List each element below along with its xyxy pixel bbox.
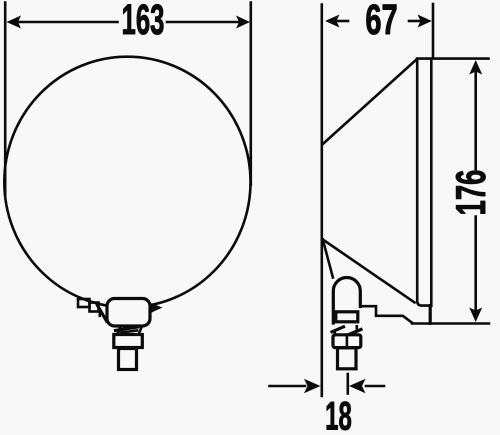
front collar lower diagonal (121, 331, 137, 333)
front bracket left diagonal strut (98, 306, 107, 322)
front nut rectangle (114, 335, 143, 348)
dimension 67 right arrowhead (418, 15, 432, 28)
dimension 176 line upper segment (474, 72, 477, 169)
side collar lower-right diagonal mark (350, 330, 361, 335)
side nut rectangle (333, 335, 361, 348)
svg-text:67: 67 (365, 0, 397, 44)
dimension 163 line left segment (18, 21, 118, 24)
front bracket right wedge (151, 303, 163, 313)
side view lens rim right edge (430, 59, 433, 306)
front bolt rectangle (119, 349, 137, 370)
side view rim bottom step vertical (429, 306, 432, 324)
side view back vertical line (320, 5, 323, 397)
dimension 67 left arrowhead (325, 15, 340, 28)
side collar upper-left diagonal mark (332, 327, 344, 332)
side view bottom step profile (360, 306, 412, 322)
dimension 18 left arrowhead pointing right (304, 379, 321, 393)
front collar right edge (139, 327, 142, 335)
dimension 176 bottom extension line (412, 322, 489, 325)
svg-text:176: 176 (448, 170, 494, 216)
side view back lower slant to bracket (323, 240, 333, 278)
dimension 163 left extension line (4, 3, 7, 196)
side collar right edge tick (355, 326, 358, 331)
front bracket left clip second rectangle (90, 303, 99, 312)
svg-text:163: 163 (122, 0, 165, 44)
dimension 176 bottom arrowhead pointing down (469, 308, 482, 323)
dimension 163 right extension line (250, 3, 253, 186)
front view lamp circle (4, 57, 250, 308)
side nut center line (346, 335, 349, 348)
front collar upper diagonal (116, 327, 138, 331)
svg-text:18: 18 (325, 393, 352, 435)
side bolt rectangle (338, 348, 357, 369)
side bolt center extension line (346, 374, 349, 394)
side bracket slot rectangle (336, 312, 358, 322)
front collar left edge (118, 327, 121, 335)
dimension 163 right arrowhead (236, 16, 250, 29)
dimension 176 line lower segment (474, 217, 477, 311)
dimension 163 line right segment (167, 21, 239, 24)
front bracket small tick below clip (99, 312, 102, 316)
dimension 67 right extension line (432, 4, 435, 58)
dimension 176 top arrowhead pointing up (469, 60, 482, 75)
dimension 18 right line (366, 385, 384, 388)
front bracket body rounded rectangle (107, 299, 150, 327)
dimension 18 left line (270, 385, 306, 388)
dimension 163 left arrowhead (7, 16, 22, 29)
dimension 18 right arrowhead pointing left (349, 379, 366, 393)
front bracket left clip small rectangle (78, 299, 90, 307)
side view cone top slanted edge (323, 59, 417, 144)
side collar left edge tick (333, 331, 336, 336)
side view cone bottom slanted edge (323, 240, 415, 303)
side view lens rim left edge with rounded bottom corner (417, 59, 427, 306)
side view top edge and 176 top extension line (417, 57, 489, 60)
dimension 67 line left segment with tail (337, 20, 348, 23)
side bracket dome (333, 278, 360, 324)
dimension 67 line right segment with tail (409, 20, 420, 23)
